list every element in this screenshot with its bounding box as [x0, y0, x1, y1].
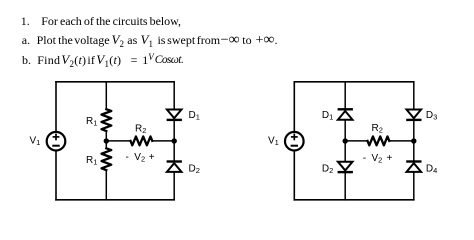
svg-text:R1: R1: [86, 116, 97, 128]
wire: right circuit mid horizontal (node to R2): [345, 140, 368, 142]
wire: left circuit right border: [173, 82, 175, 200]
label R1 (upper, left circuit): [86, 116, 97, 128]
diode D1 (right circuit, cathode up): [338, 109, 353, 119]
left circuit: left border wire: [55, 82, 57, 200]
svg-text:D4: D4: [426, 163, 437, 175]
voltage source V1 (right circuit): [285, 132, 304, 151]
wire: left circuit middle branch upper segment: [105, 82, 107, 110]
node B (left circuit right junction): [172, 138, 177, 143]
svg-text:V2: V2: [134, 152, 145, 164]
problem text line 1: [21, 15, 30, 27]
svg-text:D3: D3: [426, 110, 437, 122]
svg-text:-: -: [363, 153, 366, 164]
label D1 (left circuit): [189, 110, 200, 122]
wire: left circuit mid horizontal (R2 to right border): [152, 140, 174, 142]
label V1 (left circuit): [30, 136, 41, 148]
wire: right circuit mid horizontal (R2 to right border): [389, 140, 414, 142]
voltage source V1 (left circuit): [47, 132, 66, 151]
svg-text:D2: D2: [322, 163, 333, 175]
resistor R2 (right circuit): [368, 137, 390, 146]
svg-text:D1: D1: [322, 110, 333, 122]
svg-text:V1: V1: [30, 136, 41, 148]
resistor R1 (upper, left circuit): [102, 109, 112, 131]
label D2 (right circuit): [322, 163, 333, 175]
label D2 (left circuit): [189, 163, 200, 175]
svg-text:D1: D1: [189, 110, 200, 122]
problem text line 3: [22, 54, 31, 66]
label D4 (right circuit): [426, 163, 437, 175]
left circuit: top rail wire: [56, 81, 174, 83]
left circuit: bottom rail wire: [56, 199, 174, 201]
label - V2 + (left circuit): [126, 152, 155, 164]
label R2 (left circuit): [135, 124, 146, 136]
diode D2 (right circuit, cathode down): [338, 162, 353, 172]
svg-text:V1: V1: [268, 136, 279, 148]
node A (left circuit middle junction): [104, 138, 109, 143]
resistor R2 (left circuit): [131, 137, 153, 146]
node D (right circuit right junction): [411, 138, 416, 143]
svg-text:+: +: [149, 152, 155, 163]
svg-text:R2: R2: [372, 123, 383, 135]
right circuit: top rail wire: [294, 81, 414, 83]
label R1 (lower, left circuit): [86, 155, 97, 167]
svg-text:-: -: [126, 152, 129, 163]
label D3 (right circuit): [426, 110, 437, 122]
problem text line 2: [22, 34, 30, 46]
right circuit: left border wire: [293, 82, 295, 200]
wire: right circuit right border: [413, 82, 415, 200]
diode D2 (left circuit, cathode up): [167, 162, 182, 172]
diode D3 (right circuit, cathode down): [406, 110, 421, 120]
diode D4 (right circuit, cathode up): [406, 162, 421, 172]
wire: left circuit middle branch center segment: [105, 131, 107, 149]
node C (right circuit left junction): [343, 138, 348, 143]
svg-text:+: +: [387, 153, 393, 164]
svg-text:D2: D2: [189, 163, 200, 175]
diode D1 (left circuit, cathode down): [167, 110, 182, 120]
right circuit: bottom rail wire: [294, 199, 414, 201]
svg-text:R1: R1: [86, 155, 97, 167]
label V1 (right circuit): [268, 136, 279, 148]
label - V2 + (right circuit): [363, 153, 393, 165]
label R2 (right circuit): [372, 123, 383, 135]
svg-text:V2: V2: [372, 153, 383, 165]
wire: left circuit mid horizontal (node to R2): [106, 140, 130, 142]
resistor R1 (lower, left circuit): [102, 148, 112, 170]
label D1 (right circuit): [322, 110, 333, 122]
wire: right circuit middle branch: [344, 82, 346, 200]
svg-text:R2: R2: [135, 124, 146, 136]
wire: left circuit middle branch lower segment: [105, 170, 107, 200]
